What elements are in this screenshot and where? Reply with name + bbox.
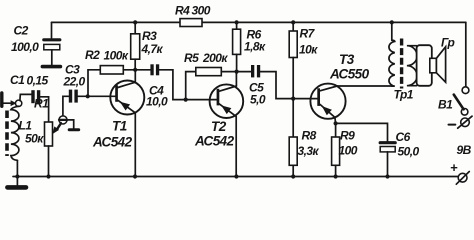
wire T1 collector — [134, 70, 136, 82]
resistor R6 — [233, 29, 241, 54]
svg-text:L1: L1 — [19, 119, 33, 133]
wire R1 bottom to rail — [48, 146, 50, 177]
potentiometer R1 — [45, 122, 53, 146]
capacitor C4 — [150, 64, 159, 75]
svg-text:+: + — [450, 160, 458, 175]
connector arrow into socket — [11, 101, 16, 106]
wire R9 top lead — [335, 123, 337, 137]
wire R3 bottom lead — [134, 59, 136, 70]
resistor R7 — [289, 31, 297, 58]
wire R2 right lead — [123, 69, 135, 71]
transformer secondary winding — [407, 46, 417, 86]
svg-text:10к: 10к — [299, 43, 318, 57]
transistor T2 — [210, 84, 244, 118]
wire C3 left down to detector — [63, 96, 69, 116]
wire emitter to C6 — [336, 123, 388, 141]
wire R9 bottom lead — [335, 165, 337, 176]
switch B1 fixed contact — [462, 87, 469, 94]
wire R8 top lead — [292, 99, 294, 137]
connector socket circle — [15, 100, 21, 106]
svg-text:50к: 50к — [25, 132, 44, 146]
speaker driver — [430, 58, 437, 73]
wire R8 bottom lead — [292, 165, 294, 176]
svg-text:3,3к: 3,3к — [298, 144, 320, 158]
node T2 base junction — [184, 98, 188, 102]
svg-text:9В: 9В — [457, 143, 472, 157]
speaker horn — [436, 47, 445, 82]
wire detector down to wiper — [58, 124, 61, 129]
svg-text:Т1: Т1 — [112, 119, 127, 134]
node R3 top on rail — [133, 20, 137, 24]
svg-text:R7: R7 — [300, 27, 316, 41]
wire junction to C4 — [135, 69, 150, 71]
jack ground bar — [69, 128, 79, 131]
svg-text:Т3: Т3 — [339, 52, 355, 67]
svg-text:R2: R2 — [85, 48, 100, 62]
svg-text:R8: R8 — [302, 129, 317, 143]
minus sign — [449, 124, 456, 126]
svg-text:1,8к: 1,8к — [244, 40, 266, 54]
svg-text:R3: R3 — [142, 29, 157, 43]
svg-text:10,0: 10,0 — [146, 95, 168, 109]
resistor R9 — [332, 137, 340, 165]
wire R3 top lead — [134, 22, 136, 33]
node L1 on rail — [15, 174, 19, 178]
ground chassis bar under C2 — [42, 65, 60, 69]
svg-text:R4: R4 — [175, 4, 190, 18]
wire C5 to T3 base node — [260, 72, 293, 99]
svg-text:100: 100 — [339, 144, 358, 158]
wire T3 base — [293, 98, 318, 100]
node R6 top on rail — [235, 20, 239, 24]
wire transformer primary top lead — [391, 22, 393, 40]
wire L1 bottom to rail — [16, 160, 18, 176]
wire R5 left lead — [186, 72, 196, 100]
svg-text:С2: С2 — [14, 24, 29, 38]
svg-text:R5: R5 — [184, 51, 199, 65]
svg-text:4,7к: 4,7к — [141, 42, 164, 56]
capacitor C1 — [31, 90, 40, 103]
svg-text:0,15: 0,15 — [27, 74, 49, 88]
node R1 on rail — [46, 174, 50, 178]
svg-text:200к: 200к — [202, 51, 228, 65]
transformer core — [400, 39, 403, 89]
svg-text:5,0: 5,0 — [250, 93, 266, 107]
wire R6 top lead — [236, 22, 238, 29]
svg-text:R1: R1 — [34, 97, 49, 111]
wire C4 to T2 base — [159, 70, 217, 100]
svg-text:Т2: Т2 — [211, 119, 227, 134]
svg-text:АС550: АС550 — [329, 67, 370, 82]
wire T1 emitter to rail — [134, 113, 136, 177]
node R3/C4/T1 collector junction — [133, 68, 137, 72]
node T3 base junction — [291, 97, 295, 101]
input plug bar — [0, 93, 3, 106]
capacitor C5 — [251, 65, 260, 77]
wire R6 bottom lead — [236, 54, 238, 71]
resistor R3 — [131, 34, 140, 59]
inductor L1 ferrite rod — [5, 111, 9, 157]
svg-text:С1: С1 — [10, 73, 25, 87]
node T1 emitter on rail — [133, 174, 137, 178]
wire T3 collector to transformer — [337, 85, 392, 87]
node R9 on rail — [334, 174, 338, 178]
R1 wiper arrow from detector — [57, 123, 61, 129]
ground chassis at rail left — [16, 177, 18, 186]
wire R2 left lead — [88, 70, 100, 97]
resistor R4 — [180, 19, 202, 27]
capacitor C2 — [44, 40, 60, 65]
wire R7 top lead — [292, 22, 294, 31]
battery minus terminal — [461, 118, 470, 127]
transistor T1 — [110, 81, 144, 115]
svg-text:100,0: 100,0 — [11, 40, 39, 54]
wire top supply rail — [52, 21, 466, 23]
switch B1 lever — [454, 95, 464, 110]
svg-text:50,0: 50,0 — [398, 145, 420, 159]
svg-text:Гр: Гр — [441, 36, 455, 50]
transistor T3 — [310, 84, 345, 119]
node R8 on rail — [291, 174, 295, 178]
svg-text:R9: R9 — [340, 129, 355, 143]
wire junction to C5 — [237, 71, 251, 73]
wire plug to socket — [4, 102, 12, 104]
detector diode circle — [59, 116, 67, 124]
svg-text:АС542: АС542 — [92, 135, 133, 150]
svg-text:В1: В1 — [438, 98, 453, 112]
svg-text:22,0: 22,0 — [63, 75, 86, 89]
node T3 emitter junction — [334, 121, 338, 125]
node transformer top on rail — [390, 20, 394, 24]
capacitor C6 — [380, 143, 395, 177]
wire R5 right lead — [221, 71, 236, 73]
switch B1 moving contact — [461, 109, 468, 116]
node T1 base junction — [86, 94, 90, 98]
battery plus terminal — [458, 173, 467, 182]
wire T2 emitter to rail — [235, 116, 237, 176]
svg-text:АС542: АС542 — [194, 134, 235, 149]
svg-text:100к: 100к — [104, 49, 129, 63]
wire socket up to C1 — [20, 94, 31, 100]
wire T2 collector — [235, 72, 237, 86]
wire bottom rail — [13, 176, 458, 178]
wire T3 emitter — [334, 117, 337, 123]
resistor R2 — [100, 66, 123, 74]
svg-text:С6: С6 — [396, 130, 411, 144]
resistor R8 — [289, 137, 297, 165]
node C6 on rail — [385, 174, 389, 178]
inductor L1 coil — [11, 106, 19, 160]
wire C1 to R1 top — [40, 97, 48, 122]
wire R7 bottom lead — [292, 58, 294, 99]
wire detector to jack ground — [67, 120, 74, 128]
capacitor C3 — [69, 90, 78, 103]
node T2 emitter on rail — [234, 174, 238, 178]
svg-text:300: 300 — [192, 4, 211, 18]
wire right edge down to switch — [465, 22, 467, 86]
speaker Gr body — [417, 45, 432, 86]
transformer Tp1 primary winding — [389, 40, 395, 86]
svg-text:Тр1: Тр1 — [394, 88, 414, 102]
wire C3 to T1 base — [78, 95, 116, 97]
resistor R5 — [196, 68, 222, 76]
node R7 top on rail — [291, 20, 295, 24]
wire C2 top lead — [51, 22, 53, 38]
node R5/R6/C5/T2 collector junction — [235, 70, 239, 74]
